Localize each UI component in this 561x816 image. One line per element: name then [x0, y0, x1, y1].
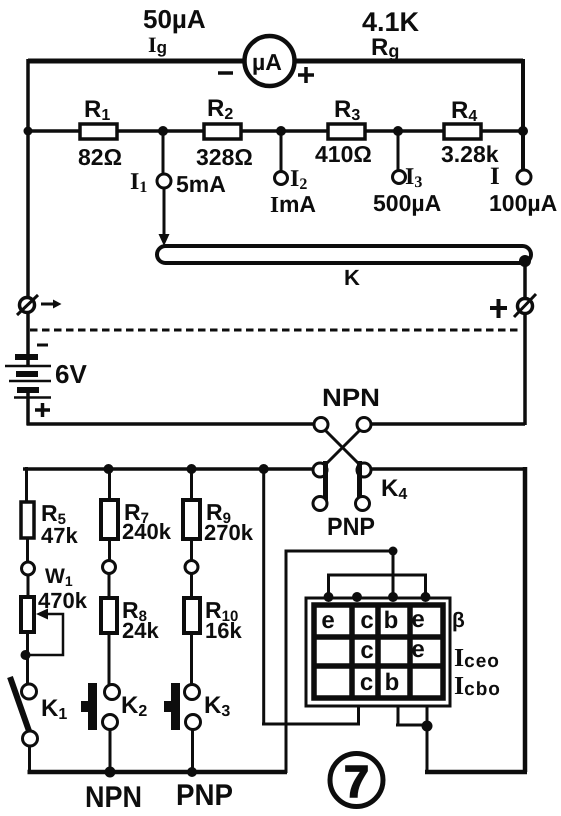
resistor R5 [21, 502, 34, 538]
svg-text:82Ω: 82Ω [78, 144, 122, 170]
svg-text:c: c [360, 637, 373, 664]
switch K4 pole bars [326, 461, 360, 504]
switch K4 contact mid-left [313, 463, 327, 477]
node left rail / resistor row [24, 127, 33, 136]
resistor R2 [204, 124, 241, 139]
svg-text:NPN: NPN [85, 781, 142, 814]
terminal between R5 and W1 [22, 562, 35, 575]
switch K4 contact bottom-left [313, 497, 327, 511]
wire bottom of top loop left part [27, 422, 316, 426]
socket pin b top [388, 592, 398, 602]
resistor R8 [101, 598, 117, 633]
potentiometer W1 wiper [27, 614, 63, 655]
svg-text:4.1K: 4.1K [362, 7, 420, 37]
svg-text:410Ω: 410Ω [315, 141, 372, 167]
wire bottom of top loop right part [370, 422, 525, 426]
svg-text:µA: µA [252, 49, 282, 75]
switch K4 crossover wires [324, 429, 361, 466]
svg-text:e: e [411, 606, 424, 633]
wire top loop left side [26, 59, 30, 354]
transistor socket outer [306, 598, 450, 706]
socket grid horizontal bars [314, 637, 443, 666]
wire lower section top left [23, 467, 313, 471]
wire stub I2 [280, 131, 283, 172]
node lower top wire col2 [259, 464, 269, 474]
socket pin e2 top [421, 592, 431, 602]
wire R7 column [109, 467, 110, 772]
terminal jack plus (right) [518, 299, 533, 314]
svg-text:5mA: 5mA [176, 171, 226, 197]
switch K2 pushbutton [105, 685, 120, 700]
wire right rail K bar down to bottom [523, 262, 527, 425]
wire stub I1 [162, 131, 165, 174]
svg-text:ImA: ImA [270, 191, 316, 217]
svg-text:K: K [344, 265, 360, 290]
svg-text:I: I [490, 163, 500, 190]
svg-text:100µA: 100µA [489, 190, 557, 216]
wire top loop top side [28, 59, 523, 64]
terminal I1 5mA [157, 174, 171, 188]
wire bottom bus [28, 770, 288, 775]
svg-text:270k: 270k [204, 520, 254, 545]
node lower top wire R7 [104, 464, 114, 474]
svg-text:c: c [360, 669, 373, 696]
svg-text:β: β [452, 609, 465, 632]
node socket bottom join [422, 721, 433, 732]
node R3-R4 [393, 126, 403, 136]
switch K4 contact top-left [314, 418, 328, 432]
svg-text:328Ω: 328Ω [196, 144, 253, 170]
svg-text:e: e [411, 636, 424, 663]
wire socket bottom right stubs [396, 703, 427, 772]
node R2-R3 [276, 126, 286, 136]
resistor R9 [183, 500, 200, 539]
socket grid vertical bars [352, 605, 410, 698]
svg-text:240k: 240k [122, 519, 172, 544]
terminal between R7 and R8 [103, 561, 116, 574]
figure number 7 [330, 754, 383, 807]
wire battery bottom to bottom rail [26, 360, 30, 425]
svg-text:50µA: 50µA [143, 4, 206, 34]
svg-text:24k: 24k [122, 618, 159, 643]
wire lower section top right [371, 467, 525, 471]
svg-text:470k: 470k [38, 588, 88, 613]
wire left column lower [27, 467, 30, 772]
wire lower right rail [523, 467, 528, 772]
wire big loop socket col3 [286, 550, 394, 774]
transistor socket inner frame [314, 605, 443, 698]
battery B 6V [37, 344, 48, 347]
switch K3 pushbutton [185, 685, 200, 700]
svg-text:500µA: 500µA [373, 190, 441, 216]
terminal I3 500uA [393, 171, 406, 184]
socket pin e1 top [324, 592, 334, 602]
switch K1 [22, 684, 37, 699]
meter uA [245, 36, 295, 86]
svg-text:c: c [360, 607, 373, 634]
wire R9 column [192, 467, 193, 772]
dashed separator line [30, 329, 519, 332]
terminal between R9 and R10 [185, 561, 198, 574]
resistor R10 [184, 598, 200, 633]
terminal jack minus (left) [20, 298, 35, 313]
resistor R4 [444, 124, 481, 139]
wire top loop right side upper [521, 59, 525, 171]
svg-text:PNP: PNP [327, 513, 375, 541]
socket pin c top [352, 592, 362, 602]
node wiper join [21, 650, 31, 660]
node K3 bus [187, 767, 197, 777]
wire socket top bridge [327, 575, 427, 597]
node R1-R2 [158, 126, 168, 136]
terminal I2 1mA [275, 172, 288, 185]
switch K4 contact bottom-right [356, 497, 370, 511]
resistor R1 [80, 124, 117, 139]
node right rail [518, 126, 528, 136]
potentiometer W1 [21, 597, 34, 632]
node K2 bus [105, 767, 116, 778]
node lower top wire R9 [187, 464, 197, 474]
svg-text:6V: 6V [55, 359, 87, 389]
wire lower bottom right [425, 770, 527, 775]
svg-text:b: b [385, 669, 400, 696]
node big loop corner [389, 547, 398, 556]
wire resistor row [28, 129, 523, 133]
svg-text:PNP: PNP [176, 779, 233, 812]
terminal I 100uA [517, 170, 531, 184]
svg-text:NPN: NPN [322, 384, 380, 412]
svg-text:47k: 47k [41, 523, 78, 548]
wire I1 to bar K with arrow [163, 188, 166, 237]
wire col2 branch down and to socket [262, 469, 360, 725]
wire stub I [522, 131, 525, 171]
svg-text:7: 7 [344, 756, 369, 807]
switch K4 contact top-right [357, 418, 371, 432]
svg-text:16k: 16k [205, 618, 242, 643]
resistor R3 [328, 124, 365, 139]
svg-text:e: e [321, 607, 334, 634]
switch K4 contact mid-right [357, 463, 371, 477]
resistor R7 [101, 500, 118, 539]
switch K slide bar [157, 246, 531, 263]
wire stub I3 [397, 131, 400, 172]
svg-text:b: b [384, 607, 399, 634]
